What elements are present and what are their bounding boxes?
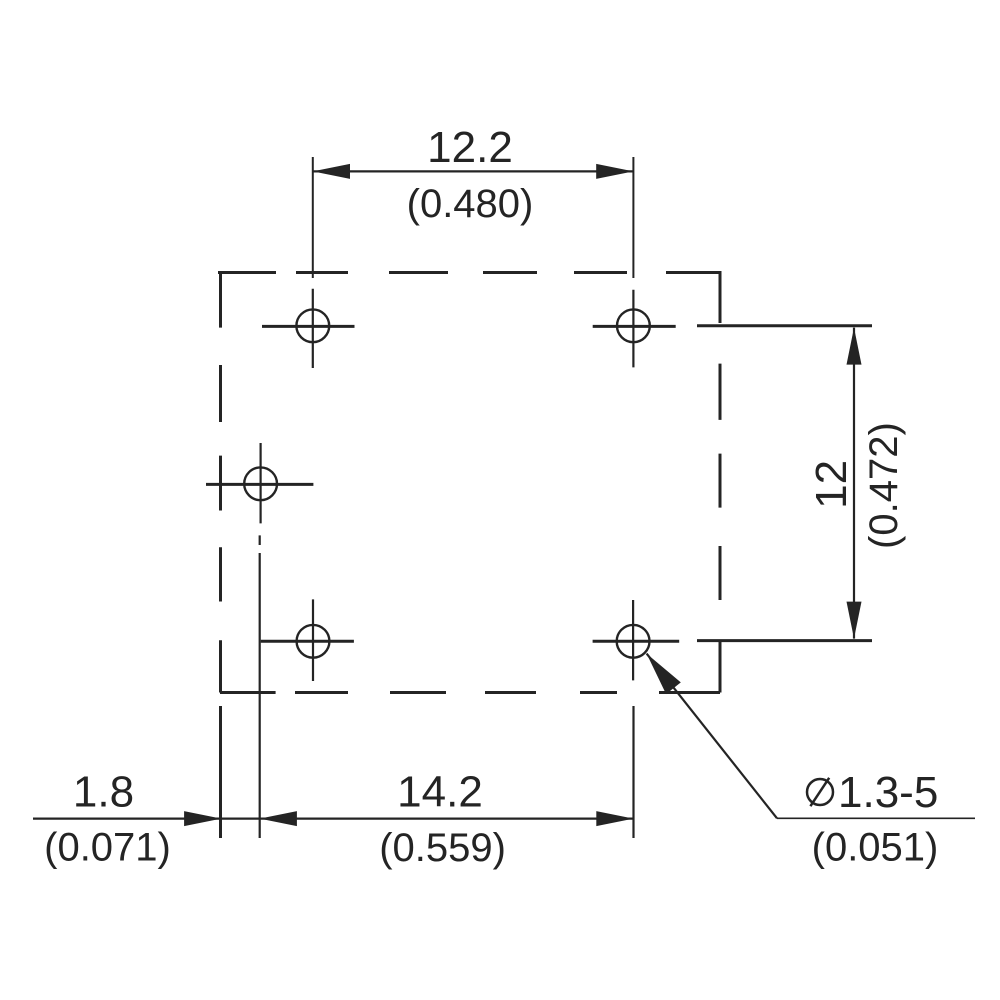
dimension line 14.2 with arrows [260,811,634,826]
callout text 1.3-5 [838,768,938,817]
dimension line 12 vertical with arrows [847,328,862,639]
hole pin 5 bottom-right [593,600,680,680]
extension line from pin 3 down for 14.2 dimension [259,535,261,838]
dimension line 12.2 with arrows [313,164,634,179]
hole pin 3 middle-left [206,443,313,523]
relay body outline right edge (dashed) [719,271,722,693]
dimension text (0.472) (rotated) [862,422,906,549]
extension lines for 12.2 dimension [313,157,634,278]
leader arrowhead at pin 5 [647,654,681,695]
svg-text:14.2: 14.2 [397,768,483,817]
dimension text 12 (rotated) [807,460,856,509]
extension lines for 12 dimension (right) [697,326,872,641]
extension line from pin 5 down for 14.2 dimension [632,706,634,838]
hole pin 2 top-right [593,290,676,368]
extension line below box left edge for 1.8 dimension [219,706,222,838]
diameter symbol of callout [807,778,833,806]
svg-text:(0.472): (0.472) [862,422,906,549]
svg-text:1.8: 1.8 [73,768,134,817]
hole pin 1 top-left [262,289,355,368]
relay body outline left edge (dashed) [219,271,222,693]
dimension text (0.480) [407,182,534,226]
dimension text 1.8 [73,768,134,817]
svg-text:1.3-5: 1.3-5 [838,768,938,817]
relay body outline top edge (dashed) [218,271,720,274]
dimension line 1.8 with arrow [33,811,260,826]
dimension text (0.071) [44,826,171,870]
relay body outline bottom edge (dashed) [220,691,720,694]
svg-text:(0.559): (0.559) [379,826,506,870]
leader line to hole diameter callout [647,654,975,819]
callout text (0.051) [812,826,939,870]
dimension text 14.2 [397,768,483,817]
svg-text:(0.051): (0.051) [812,826,939,870]
svg-text:12: 12 [807,460,856,509]
dimension text (0.559) [379,826,506,870]
hole pin 4 bottom-left [261,599,354,681]
svg-text:(0.480): (0.480) [407,182,534,226]
svg-text:12.2: 12.2 [427,123,513,172]
dimension text 12.2 [427,123,513,172]
svg-text:(0.071): (0.071) [44,826,171,870]
